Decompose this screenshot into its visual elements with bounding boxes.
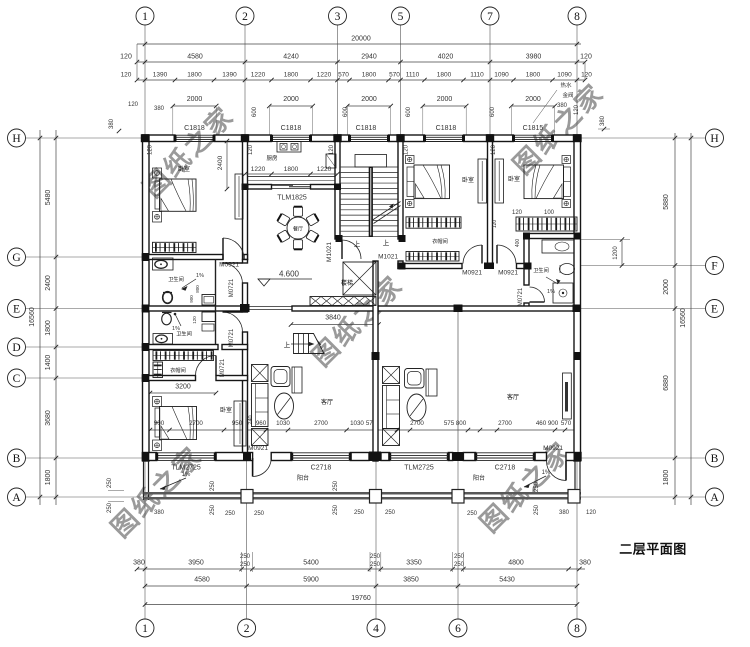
svg-text:950: 950: [232, 420, 243, 427]
wall G bedroom1 south: [143, 255, 224, 260]
svg-text:M0921: M0921: [248, 445, 268, 452]
bedroom1 nightstand top: [153, 168, 162, 178]
svg-text:250: 250: [370, 562, 381, 568]
svg-text:TLM2725: TLM2725: [404, 465, 434, 472]
svg-text:20000: 20000: [351, 36, 371, 43]
wall axis 2 middle segments with door gaps: [243, 260, 248, 264]
svg-text:M0921: M0921: [462, 270, 482, 277]
svg-text:16560: 16560: [29, 307, 36, 327]
svg-text:2400: 2400: [45, 275, 52, 291]
axis circle 5 top: [392, 7, 410, 25]
bathroom2 west wall with door gap: [524, 239, 529, 286]
balcony railing: [144, 492, 582, 495]
svg-text:1220: 1220: [251, 72, 266, 79]
door M0721 bathroomB: [223, 311, 243, 313]
axis extension lines bottom: [144, 460, 146, 619]
svg-text:卧室: 卧室: [220, 406, 232, 414]
svg-text:E: E: [711, 303, 718, 315]
svg-text:卫生间: 卫生间: [168, 275, 184, 283]
svg-text:250: 250: [354, 510, 365, 516]
svg-text:7: 7: [487, 11, 493, 23]
svg-text:2000: 2000: [187, 96, 203, 103]
door M1021 stairwell: [341, 240, 343, 259]
svg-text:TLM2725: TLM2725: [171, 465, 201, 472]
dim total 20000: [137, 43, 581, 45]
svg-text:570: 570: [389, 72, 400, 79]
svg-text:19760: 19760: [351, 595, 371, 602]
level marker 4.600: [258, 279, 270, 286]
svg-text:M0921: M0921: [543, 445, 563, 452]
svg-text:120: 120: [192, 316, 197, 324]
door M0921 balcony left: [252, 458, 254, 477]
cloakroom2 shelves lower: [406, 252, 459, 262]
svg-text:800: 800: [456, 420, 467, 427]
svg-text:C: C: [13, 373, 21, 385]
svg-text:A: A: [12, 492, 21, 504]
svg-text:250: 250: [385, 510, 396, 516]
svg-text:1400: 1400: [45, 355, 52, 371]
svg-text:400: 400: [515, 239, 521, 248]
wall E left bathroom south: [143, 306, 248, 311]
svg-text:5880: 5880: [663, 194, 670, 210]
door M0921 cloakroom2: [481, 245, 483, 264]
svg-text:800: 800: [195, 285, 200, 293]
bedroomBL wardrobe rect: [234, 401, 246, 446]
svg-text:3200: 3200: [175, 384, 191, 391]
svg-text:250: 250: [454, 554, 465, 560]
svg-text:阳台: 阳台: [473, 474, 485, 482]
sofa left armchair: [271, 367, 290, 387]
sofa right armchair: [405, 369, 425, 389]
axis circle 2 bottom: [238, 619, 256, 637]
svg-text:120: 120: [586, 510, 597, 516]
svg-text:120: 120: [492, 220, 498, 229]
svg-text:A: A: [710, 492, 719, 504]
svg-text:卧室: 卧室: [508, 175, 520, 183]
svg-text:3980: 3980: [526, 54, 542, 61]
svg-text:卧室: 卧室: [178, 165, 190, 173]
column mark axis4 mid: [372, 352, 380, 360]
wall F segments with door gaps M0921: [398, 264, 462, 269]
bedroom3 bed: [524, 165, 564, 199]
axis circle H left: [8, 129, 26, 147]
axis circle B right: [706, 449, 724, 467]
stair lower flight: [294, 334, 325, 354]
window C2718 in wall B right: [476, 452, 535, 454]
wall B exterior segments: [143, 453, 157, 461]
bedroom3 nightstand top: [562, 156, 571, 164]
wall axis 3 stair west: [335, 135, 340, 239]
svg-text:16560: 16560: [680, 308, 687, 328]
svg-text:H: H: [12, 133, 20, 145]
bedroom2 bed: [414, 165, 450, 199]
stair landing rectangle: [355, 155, 387, 168]
wall E center section: [292, 306, 379, 311]
svg-text:380: 380: [109, 118, 115, 129]
svg-text:1110: 1110: [406, 72, 420, 79]
svg-text:衣帽间: 衣帽间: [170, 366, 186, 374]
svg-text:120: 120: [580, 54, 592, 61]
living room right cabinet: [563, 373, 572, 419]
dim row borders: [136, 44, 138, 80]
cloakroom shelves: [153, 351, 214, 361]
cloakroom2 shelves upper: [406, 217, 461, 228]
svg-text:1030: 1030: [276, 420, 290, 427]
wall E threshold lines hall: [248, 306, 293, 308]
svg-text:4: 4: [373, 623, 379, 635]
bedroom2 nightstand bottom: [406, 200, 415, 208]
stair arrow: [389, 204, 394, 209]
svg-text:M1021: M1021: [378, 254, 398, 261]
svg-text:卧室: 卧室: [462, 176, 474, 184]
column marks wall F: [399, 263, 406, 270]
bathroomB basin: [153, 334, 173, 345]
svg-text:B: B: [13, 453, 21, 465]
balcony side edges: [143, 461, 145, 500]
column marks at wall B posts: [369, 452, 381, 462]
dim row 380/3950/5400/3350/4800: [137, 568, 585, 570]
svg-text:餐厅: 餐厅: [293, 226, 303, 233]
svg-text:250: 250: [333, 504, 339, 515]
svg-text:上: 上: [284, 340, 291, 349]
bathroomB slope 1%: [174, 313, 177, 316]
column mark B at axis 2: [243, 452, 251, 461]
column marks stair walls bottom: [336, 235, 343, 242]
svg-text:5900: 5900: [303, 577, 319, 584]
bedroom2 wardrobe rect: [478, 159, 487, 203]
axis circle 6 bottom: [449, 619, 467, 637]
svg-text:2000: 2000: [525, 96, 541, 103]
bedroomBL bed: [160, 407, 197, 440]
svg-text:4240: 4240: [283, 54, 299, 61]
dim total 19760: [145, 604, 577, 606]
svg-text:2940: 2940: [361, 54, 377, 61]
svg-text:1220: 1220: [317, 166, 332, 173]
balcony post axis6: [452, 490, 464, 504]
bedroomBL nightstand top: [153, 397, 162, 407]
svg-text:460: 460: [536, 420, 547, 427]
svg-text:1800: 1800: [437, 72, 452, 79]
svg-text:250: 250: [467, 511, 478, 517]
svg-text:2700: 2700: [498, 420, 512, 427]
svg-text:二层平面图: 二层平面图: [619, 542, 687, 557]
wall right exterior axis 8: [574, 135, 581, 461]
svg-text:卫生间: 卫生间: [176, 330, 192, 338]
svg-text:4580: 4580: [187, 54, 203, 61]
axis circle E left: [8, 300, 26, 318]
svg-text:600: 600: [252, 106, 258, 117]
svg-text:3: 3: [335, 11, 341, 23]
wall D bathroom south: [143, 345, 219, 350]
bedroom1 nightstand bottom: [153, 212, 162, 223]
axis 6 reference line in living room: [457, 311, 459, 452]
svg-text:1800: 1800: [187, 72, 202, 79]
bedroom3 shelves: [516, 217, 577, 231]
bathroomA toilet: [163, 292, 173, 304]
svg-text:240: 240: [248, 415, 254, 424]
windows C1818 in wall H: [175, 134, 214, 136]
svg-text:8: 8: [574, 623, 580, 635]
svg-text:5430: 5430: [499, 577, 515, 584]
column marks left wall: [142, 253, 150, 261]
sofa left X-chair top: [252, 365, 269, 382]
svg-text:4800: 4800: [508, 560, 524, 567]
svg-text:C2718: C2718: [495, 465, 516, 472]
kitchen counter band: [248, 177, 336, 185]
svg-text:900: 900: [548, 420, 559, 427]
dim row 4580/5900/3850/5430: [145, 585, 577, 587]
svg-text:380: 380: [579, 560, 591, 567]
svg-text:250: 250: [210, 480, 216, 491]
axis circle F right: [706, 257, 724, 275]
stair main treads: [341, 166, 398, 168]
door M0921 bedroom3: [496, 245, 498, 264]
svg-text:120: 120: [581, 72, 592, 79]
dim 3840 stair hall: [291, 324, 379, 326]
svg-text:120: 120: [120, 54, 132, 61]
wall axis 5 stair east: [398, 135, 403, 239]
bathroomB shower boxes: [202, 312, 216, 322]
axis extension lines right: [580, 137, 706, 139]
wall C cloakroom south: [143, 376, 196, 381]
column at F wall center: [484, 263, 494, 270]
window width dims 2000: [173, 105, 216, 107]
svg-text:C1818: C1818: [281, 125, 302, 132]
sofa left coffee table: [275, 393, 294, 419]
svg-text:厨房: 厨房: [266, 154, 278, 162]
bathroom2 shower: [553, 283, 573, 303]
axis circle D left: [8, 338, 26, 356]
svg-text:2000: 2000: [283, 96, 299, 103]
axis circle 8 top: [568, 7, 586, 25]
dim row left 5480/2400/1800/1400/3680/1800: [55, 130, 57, 505]
kitchen window dims 1220/1800/1220: [245, 173, 338, 175]
column mark left wall at B: [142, 452, 150, 461]
svg-text:250: 250: [534, 504, 540, 515]
svg-text:4580: 4580: [194, 577, 210, 584]
svg-text:客厅: 客厅: [321, 398, 333, 406]
svg-text:250: 250: [107, 502, 113, 513]
svg-text:250: 250: [333, 480, 339, 491]
svg-text:6: 6: [455, 623, 461, 635]
svg-text:4.600: 4.600: [279, 270, 300, 279]
door M0721 bathroom2: [530, 301, 545, 303]
axis circle 7 top: [481, 7, 499, 25]
svg-text:TLM1825: TLM1825: [277, 195, 307, 202]
kitchen dim 2400 vertical: [226, 141, 228, 189]
svg-text:楼梯: 楼梯: [341, 279, 353, 287]
svg-text:1110: 1110: [470, 72, 484, 79]
balcony post axis4: [370, 490, 382, 504]
column mark bathroom2 NW: [523, 233, 530, 240]
dim total 16560 left: [39, 130, 41, 505]
dim row right 5880/2000/6880/1800: [674, 133, 676, 505]
axis circle G left: [8, 248, 26, 266]
svg-text:2700: 2700: [314, 420, 328, 427]
bathroom2 toilet: [560, 264, 575, 275]
axis circle 1 top: [136, 7, 154, 25]
axis circle 3 top: [329, 7, 347, 25]
svg-text:C2718: C2718: [311, 465, 332, 472]
svg-text:120: 120: [491, 144, 497, 155]
wall axis 4 between living rooms: [373, 261, 378, 461]
svg-text:1800: 1800: [526, 72, 541, 79]
stair stringer: [369, 167, 373, 238]
dim extension ticks at posts bottom row: [241, 552, 243, 572]
svg-text:金阀: 金阀: [562, 91, 573, 99]
balcony post right end: [568, 490, 580, 504]
door M0721 bathroomA: [222, 262, 243, 264]
svg-text:1390: 1390: [222, 72, 237, 79]
axis circle A right: [706, 488, 724, 506]
svg-text:250: 250: [370, 554, 381, 560]
svg-text:120: 120: [404, 144, 410, 155]
svg-text:1800: 1800: [284, 166, 299, 173]
svg-text:1%: 1%: [196, 273, 204, 279]
svg-text:3850: 3850: [403, 577, 419, 584]
svg-text:客厅: 客厅: [507, 393, 519, 401]
svg-text:1090: 1090: [557, 72, 572, 79]
svg-text:380: 380: [559, 510, 570, 516]
svg-text:250: 250: [225, 511, 236, 517]
axis circle H right: [706, 129, 724, 147]
svg-text:M1021: M1021: [326, 242, 333, 262]
dining chairs: [293, 207, 302, 217]
svg-text:C1818: C1818: [356, 125, 377, 132]
svg-text:570: 570: [338, 72, 349, 79]
sofa right couch: [383, 386, 400, 429]
svg-text:E: E: [13, 303, 20, 315]
svg-text:900: 900: [189, 295, 194, 303]
dim row 4580/4240/2940/4020/3980: [137, 61, 585, 63]
kitchen south wall with sliding door TLM1825: [243, 185, 272, 190]
axis circle A left: [8, 488, 26, 506]
bedroom1 bed: [160, 179, 197, 211]
bathroom2 basin counter: [542, 240, 574, 253]
svg-text:4020: 4020: [438, 54, 454, 61]
balcony post axis2: [241, 490, 253, 504]
svg-text:D: D: [12, 342, 20, 354]
bedroom3 wardrobe rect: [495, 159, 504, 203]
door M0921 bedroom1: [222, 238, 224, 260]
svg-text:2: 2: [244, 623, 250, 635]
svg-text:卫生间: 卫生间: [533, 266, 549, 274]
svg-text:600: 600: [490, 106, 496, 117]
svg-text:960: 960: [256, 420, 267, 427]
window TLM2725 in wall B right-mid: [390, 452, 449, 454]
svg-text:1800: 1800: [45, 470, 52, 486]
wall axis 7 between bedrooms: [488, 135, 493, 264]
sofa left X-chair bottom: [252, 429, 269, 446]
svg-text:380: 380: [557, 103, 568, 109]
svg-text:G: G: [12, 252, 20, 264]
svg-text:1200: 1200: [613, 246, 619, 260]
svg-text:M0921: M0921: [498, 270, 518, 277]
svg-text:1390: 1390: [153, 72, 168, 79]
axis circle C left: [8, 369, 26, 387]
svg-text:6880: 6880: [663, 375, 670, 391]
svg-text:120: 120: [148, 144, 154, 155]
svg-text:120: 120: [574, 104, 580, 115]
svg-text:120: 120: [512, 210, 523, 216]
axis circle B left: [8, 449, 26, 467]
column mark right wall mid living: [574, 352, 581, 360]
svg-text:热水: 热水: [560, 81, 572, 89]
svg-text:250: 250: [107, 477, 113, 488]
svg-text:1%: 1%: [547, 289, 555, 295]
svg-text:C1815: C1815: [523, 125, 544, 132]
svg-text:3840: 3840: [325, 315, 341, 322]
svg-text:1800: 1800: [663, 470, 670, 486]
svg-text:3350: 3350: [406, 560, 422, 567]
svg-text:250: 250: [454, 562, 465, 568]
axis extension lines left: [26, 137, 143, 139]
svg-text:2000: 2000: [437, 96, 453, 103]
svg-text:600: 600: [406, 106, 412, 117]
svg-text:380: 380: [154, 106, 165, 112]
svg-text:1800: 1800: [362, 72, 377, 79]
stair break line: [372, 202, 401, 221]
axis circle 8 bottom: [568, 619, 586, 637]
svg-text:C1818: C1818: [436, 125, 457, 132]
sofa left side rect: [292, 367, 302, 393]
stair hatched band: [310, 297, 376, 306]
svg-text:3680: 3680: [45, 410, 52, 426]
svg-text:C1818: C1818: [184, 125, 205, 132]
sofa right X-chair bottom: [383, 429, 400, 446]
bedroom1 closet: [153, 242, 197, 252]
column mark B at axis 8: [574, 452, 582, 461]
sofa right coffee table: [407, 394, 426, 421]
svg-text:上: 上: [354, 239, 361, 248]
svg-text:250: 250: [254, 511, 265, 517]
svg-text:570: 570: [561, 420, 572, 427]
svg-text:250: 250: [210, 504, 216, 515]
svg-text:8: 8: [574, 11, 580, 23]
svg-text:120: 120: [329, 144, 335, 155]
window C2718 in wall B left-mid: [292, 452, 351, 454]
svg-text:衣帽间: 衣帽间: [432, 237, 448, 245]
svg-text:5480: 5480: [45, 190, 52, 206]
svg-text:1090: 1090: [494, 72, 509, 79]
door M0721 cloakroom: [215, 356, 217, 376]
axis circle 4 bottom: [367, 619, 385, 637]
svg-text:100: 100: [544, 210, 555, 216]
svg-text:3950: 3950: [188, 560, 204, 567]
bedroom1 wardrobe rect: [235, 174, 243, 219]
svg-text:阳台: 阳台: [297, 474, 309, 482]
bathroom2 north wall: [524, 234, 580, 239]
window TLM2725 in wall B left: [157, 452, 216, 454]
axis circle E right: [706, 300, 724, 318]
svg-text:M0721: M0721: [518, 287, 524, 306]
svg-text:1030: 1030: [350, 420, 364, 427]
column marks at wall E: [240, 304, 250, 312]
wall H exterior segments: [143, 135, 176, 142]
column marks kitchen wall: [242, 184, 249, 191]
dining table round: [287, 217, 309, 239]
kitchen stove: [277, 142, 301, 153]
svg-text:250: 250: [534, 481, 540, 492]
svg-text:B: B: [711, 453, 719, 465]
axis circle 2 top: [236, 7, 254, 25]
svg-text:1220: 1220: [251, 166, 266, 173]
svg-text:2000: 2000: [361, 96, 377, 103]
bathroomA basin counter: [153, 258, 174, 270]
dim row interior 900/2700 etc: [150, 429, 577, 431]
svg-text:2000: 2000: [663, 279, 670, 295]
svg-text:600: 600: [343, 106, 349, 117]
